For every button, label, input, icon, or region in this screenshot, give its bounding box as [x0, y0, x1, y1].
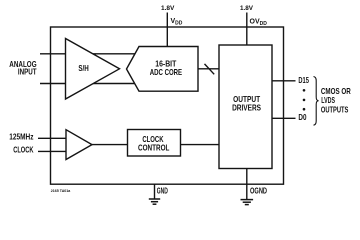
svg-text:INPUT: INPUT — [18, 66, 37, 76]
svg-text:CLOCK: CLOCK — [13, 144, 33, 154]
svg-text:1.8V: 1.8V — [161, 5, 175, 12]
svg-text:D0: D0 — [298, 112, 306, 122]
svg-text:S/H: S/H — [78, 63, 88, 73]
svg-text:1.8V: 1.8V — [240, 5, 254, 12]
svg-text:2165 TA01a: 2165 TA01a — [51, 188, 71, 193]
svg-text:CONTROL: CONTROL — [138, 143, 169, 153]
svg-text:D15: D15 — [298, 75, 309, 85]
svg-text:DRIVERS: DRIVERS — [232, 102, 261, 112]
svg-text:OUTPUTS: OUTPUTS — [321, 104, 349, 114]
svg-text:GND: GND — [157, 187, 168, 196]
svg-text:ADC CORE: ADC CORE — [150, 67, 183, 77]
svg-text:125MHz: 125MHz — [9, 132, 33, 142]
svg-text:OGND: OGND — [250, 187, 267, 196]
